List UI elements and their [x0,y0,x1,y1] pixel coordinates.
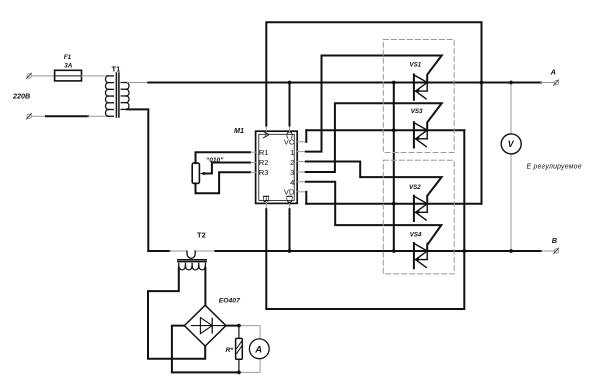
wire pin A loop (top big loop) [265,126,267,132]
thyristor VS1 [410,61,428,100]
transformer T1 [106,65,130,118]
thyristor VS4 [410,231,428,268]
svg-text:Т2: Т2 [197,231,206,240]
svg-text:F1: F1 [64,54,72,61]
bridge rectifier ЕО407 [184,298,241,347]
svg-text:VS2: VS2 [409,184,421,191]
svg-text:“010”: “010” [206,157,224,164]
wire pin 4 to VS4 gate [297,182,441,251]
wire T2 secondary right to bridge top [204,268,206,305]
wire R3 to potentiometer bottom [196,172,256,193]
T2 secondary winding [179,263,206,270]
svg-text:М1: М1 [234,126,244,135]
svg-text:VS4: VS4 [410,231,422,238]
IC pin labels [259,131,295,204]
svg-text:R2: R2 [259,158,269,167]
svg-text:Е регулируемое: Е регулируемое [527,163,582,170]
svg-text:R*: R* [226,347,234,354]
thyristor VS3 [411,108,428,148]
wire ammeter bottom [239,359,260,373]
svg-text:В: В [552,236,557,245]
input terminal X1 (top left) [27,73,32,78]
svg-text:C: C [284,131,293,140]
svg-text:3: 3 [290,168,294,177]
svg-text:4: 4 [290,178,294,187]
fuse F1 [55,54,82,81]
wire bridge left to bottom rail [172,326,239,373]
wire pin VD to VS2 anode line [297,192,306,204]
wire T1 secondary bottom down to bus B [127,109,148,251]
thyristor VS2 [409,184,427,221]
svg-text:B: B [261,195,270,203]
T2 core [178,259,207,261]
svg-text:3А: 3А [64,62,73,69]
svg-text:Т1: Т1 [112,65,121,74]
wire pin B loop (bottom big loop) [265,203,267,209]
dashed box thyristor group 1 (VS1 VS3) [383,40,454,153]
wire pin 1 to VS1 gate [297,56,442,152]
junction dot VS2 anode [392,202,396,206]
potentiometer body [192,163,199,183]
VS2 anode line [306,203,481,205]
svg-text:А: А [550,68,556,77]
svg-text:R3: R3 [259,168,269,177]
junction dots bus A [288,81,292,85]
svg-text:ЕО407: ЕО407 [219,298,241,305]
bus A (phase A) [148,82,541,84]
svg-text:А: А [254,345,262,356]
T2 primary loop [187,251,195,258]
svg-text:V: V [508,139,515,149]
dashed box thyristor group 2 (VS2 VS4) [383,160,454,274]
wire to ammeter top [239,326,260,339]
wire pin VC to VS3 anode line [297,130,306,142]
vertical link bus A to bus B through thyristor anodes [393,83,395,252]
svg-text:VS1: VS1 [410,61,422,68]
node dot R* bottom [237,371,241,375]
terminal A [550,68,559,86]
svg-text:2: 2 [290,158,294,167]
svg-text:A: A [261,131,270,139]
node dot R* top [237,324,241,328]
wire R2 to potentiometer wiper [200,163,256,176]
IC М1 control module [234,126,297,203]
input terminal X2 (bottom left) [27,114,32,119]
ammeter A [249,339,269,359]
VS3 anode line [306,129,464,131]
wire R1 to potentiometer top [196,152,256,163]
svg-text:220В: 220В [12,91,30,100]
wire pin 2 to VS2 gate [297,162,441,204]
wire X1 to fuse [32,75,55,77]
voltmeter V [501,83,521,252]
wire T1 secondary top to bus A [127,82,148,84]
junction dots bus B [288,249,292,253]
svg-text:R1: R1 [259,148,269,157]
T1 secondary winding [121,83,129,110]
transformer T2 (current transformer on bus B) [178,231,207,270]
bus B (phase B) [148,250,554,252]
wire pin 3 to VS3 gate [297,103,442,172]
wire fuse to T1 [82,75,109,77]
wire pin C to bus A [289,126,291,132]
T1 primary winding [106,76,114,116]
wire X2 to T1 primary bottom [32,115,109,117]
wire bridge right to R* top [226,325,239,327]
junction dot VS3 anode [392,128,396,132]
svg-text:1: 1 [290,148,294,157]
T1 core [115,73,117,117]
wire T2 secondary left to bridge bottom [148,268,205,359]
terminal B [552,236,559,253]
wire pin D to bus B [289,203,291,209]
resistor R* (shunt) [226,326,243,373]
svg-text:D: D [284,195,293,204]
svg-text:VS3: VS3 [411,108,423,115]
